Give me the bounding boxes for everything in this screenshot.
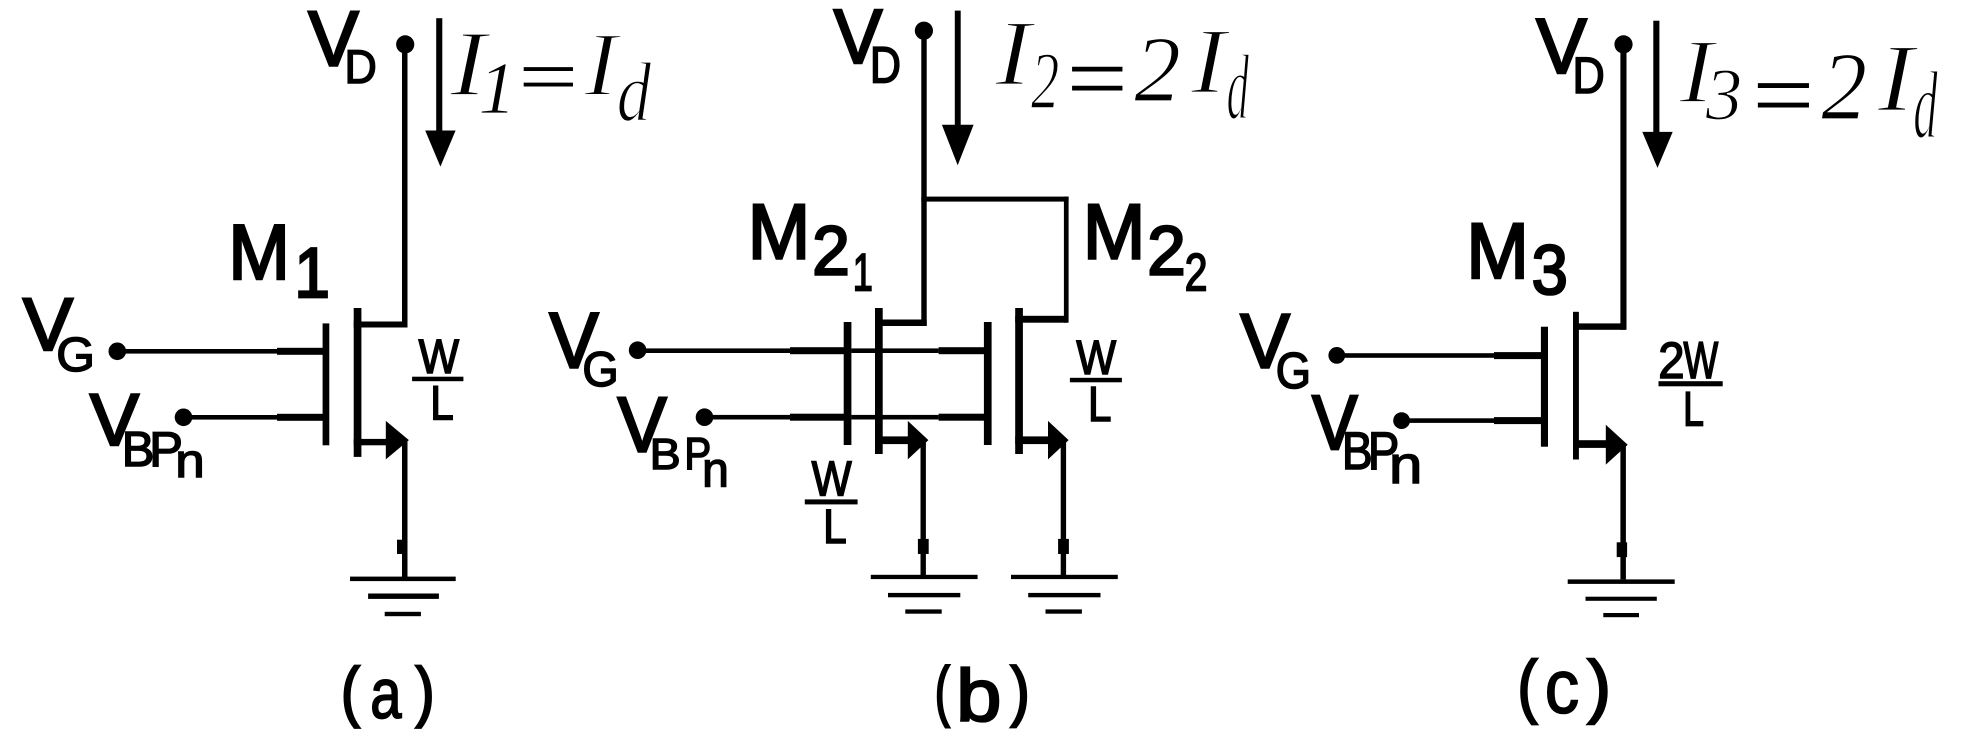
svg-text:D: D [1573, 48, 1605, 104]
svg-text:G: G [1276, 342, 1311, 399]
svg-text:B: B [650, 429, 681, 478]
svg-text:2: 2 [1147, 211, 1185, 289]
svg-text:=: = [512, 34, 584, 120]
svg-text:1: 1 [853, 243, 873, 303]
svg-text:2: 2 [1031, 36, 1059, 127]
svg-text:): ) [1011, 654, 1030, 727]
svg-text:D: D [345, 40, 377, 93]
svg-text:3: 3 [1532, 232, 1568, 310]
svg-text:I: I [994, 2, 1036, 105]
svg-text:2: 2 [1821, 34, 1867, 141]
svg-text:(: ( [1518, 647, 1537, 725]
svg-text:G: G [582, 343, 618, 397]
svg-text:n: n [702, 443, 729, 498]
svg-text:(: ( [935, 654, 950, 728]
svg-text:2: 2 [1658, 332, 1684, 389]
svg-text:2: 2 [1134, 19, 1181, 122]
svg-text:M: M [228, 209, 290, 296]
svg-text:W: W [812, 452, 852, 506]
svg-text:I: I [1190, 10, 1231, 113]
svg-text:M: M [1466, 207, 1529, 295]
svg-text:1: 1 [295, 234, 330, 313]
svg-text:I: I [1876, 26, 1919, 132]
svg-text:): ) [416, 654, 434, 728]
svg-text:3: 3 [1705, 53, 1743, 136]
svg-text:D: D [870, 37, 901, 94]
svg-text:I: I [583, 13, 622, 115]
svg-text:n: n [1389, 436, 1422, 495]
svg-text:b: b [956, 655, 1001, 736]
svg-text:G: G [56, 329, 95, 382]
svg-text:L: L [823, 499, 847, 553]
svg-text:L: L [1088, 377, 1111, 432]
svg-text:=: = [1745, 41, 1819, 149]
svg-text:M: M [1083, 189, 1146, 275]
svg-text:n: n [175, 435, 204, 488]
svg-text:W: W [1684, 331, 1719, 390]
svg-text:c: c [1545, 645, 1579, 730]
svg-text:L: L [1683, 383, 1704, 437]
svg-text:d: d [1227, 36, 1250, 139]
svg-text:2: 2 [1185, 243, 1208, 302]
svg-text:L: L [430, 376, 453, 430]
svg-text:d: d [1913, 52, 1938, 159]
svg-text:): ) [1588, 646, 1611, 724]
svg-text:a: a [370, 654, 402, 734]
svg-text:1: 1 [479, 49, 516, 130]
svg-text:(: ( [341, 654, 359, 728]
svg-text:M: M [748, 189, 811, 275]
svg-text:=: = [1060, 26, 1133, 130]
svg-text:2: 2 [812, 212, 849, 290]
svg-text:d: d [617, 45, 652, 139]
